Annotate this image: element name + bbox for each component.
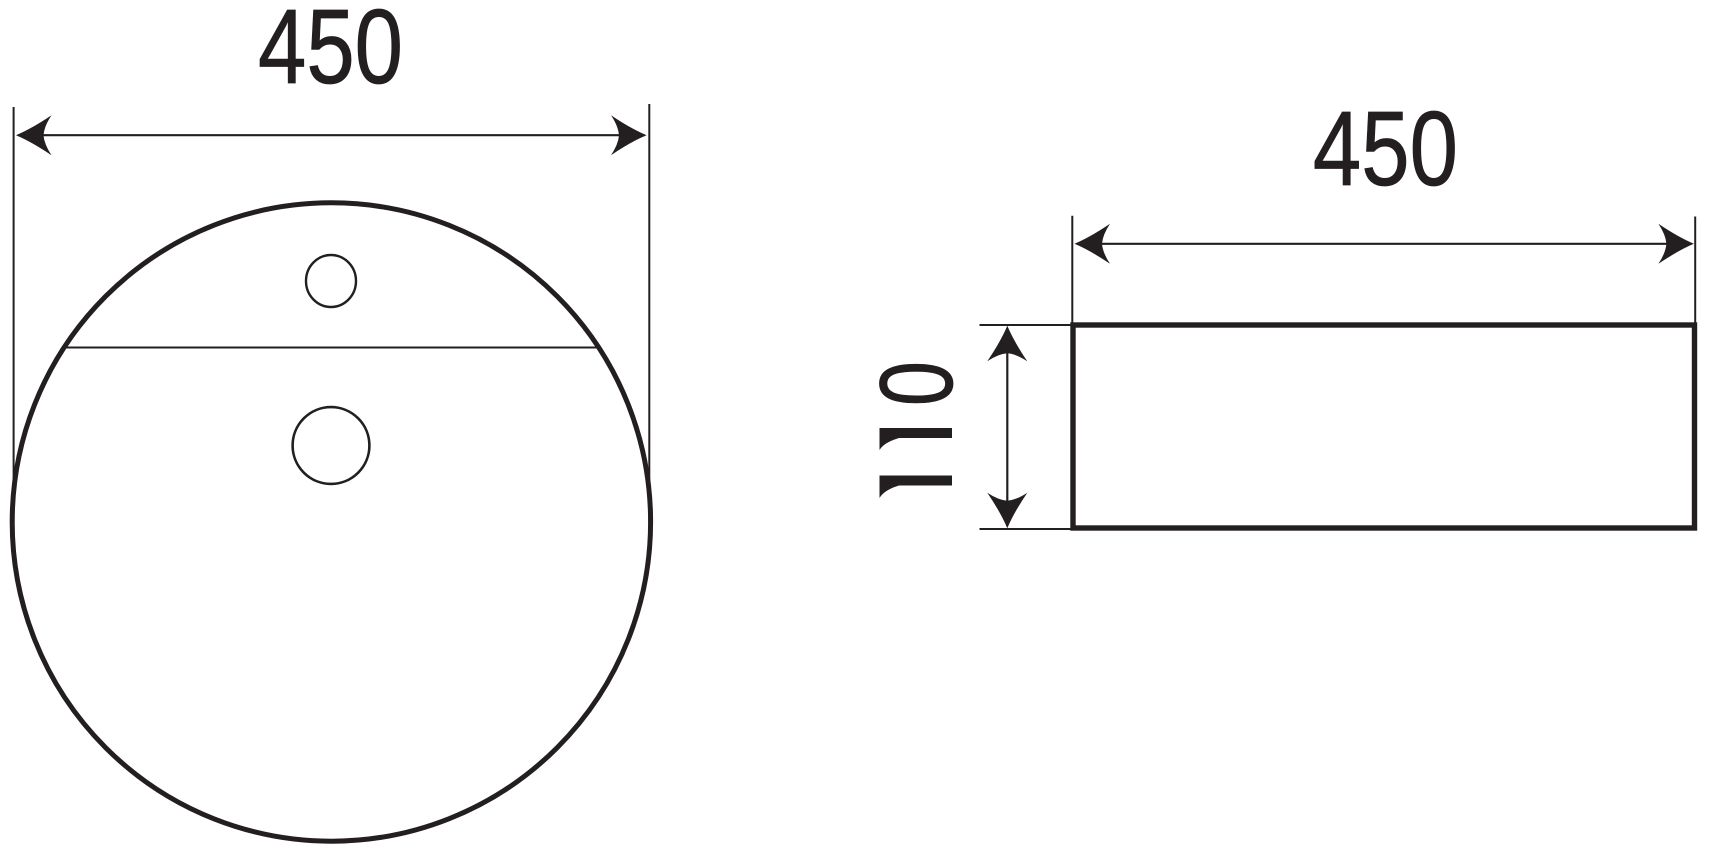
ledge chord line (top view) — [65, 347, 598, 349]
arrowhead down (110 dim) — [987, 493, 1027, 529]
dimension label 450 (top view) — [258, 0, 403, 106]
arrowhead left (450 top view) — [16, 115, 52, 155]
extension line right (top view) — [648, 104, 650, 522]
arrowhead left (450 side view) — [1075, 224, 1111, 264]
arrowhead right (450 top view) — [611, 115, 647, 155]
drain hole (top view) — [293, 407, 370, 484]
dimension label 110: upper digit 1 — [880, 428, 953, 450]
arrowhead up (110 dim) — [987, 326, 1027, 362]
extension line left (top view) — [13, 107, 15, 522]
extension line right (side view top) — [1694, 217, 1696, 324]
arrowhead right (450 side view) — [1658, 224, 1694, 264]
basin side profile rectangle — [1073, 325, 1695, 528]
dimension line 450 (side view) — [1077, 243, 1691, 245]
extension line bottom (110 dim) — [980, 528, 1071, 530]
dimension line 110 (side view) — [1006, 328, 1008, 526]
dimension line 450 (top view) — [18, 134, 645, 136]
extension line top (110 dim) — [980, 324, 1071, 326]
svg-text:450: 450 — [1313, 89, 1458, 208]
basin rim circle (top view) — [12, 203, 650, 841]
svg-text:450: 450 — [258, 0, 403, 106]
faucet hole (top view) — [306, 255, 356, 307]
dimension label 110 (rotated): digit 0 — [858, 361, 974, 406]
dimension label 110: lower digit 1 — [880, 476, 953, 499]
extension line left (side view top) — [1071, 216, 1073, 323]
dimension label 450 (side view) — [1313, 89, 1458, 208]
svg-text:0: 0 — [858, 361, 974, 406]
